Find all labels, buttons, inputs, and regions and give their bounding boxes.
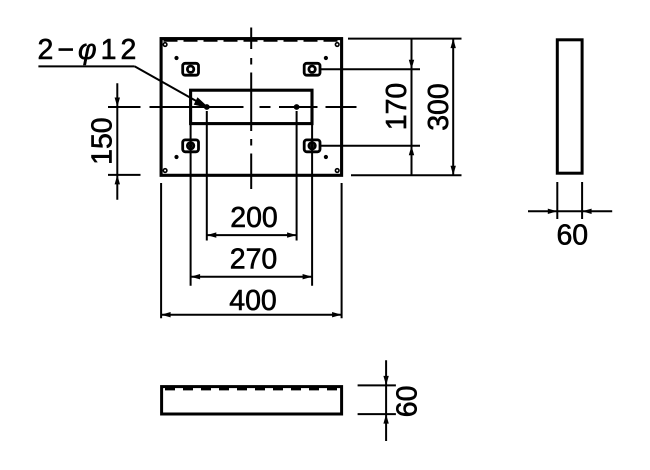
- hole right (phi 12): [294, 104, 300, 110]
- dimension 170 extension lines (right): [321, 69, 420, 146]
- corner circle top-right: [335, 43, 339, 47]
- dimension 300 line: [452, 39, 454, 176]
- dimension 60 (bottom view): [385, 360, 387, 441]
- dimension 300 extension lines (right): [348, 39, 462, 176]
- bottom view outline (400x60): [162, 387, 342, 414]
- extension lines below plate (400): [161, 183, 342, 318]
- svg-text:60: 60: [392, 386, 424, 418]
- svg-text:270: 270: [230, 244, 278, 276]
- corner circle bottom-left: [163, 169, 167, 173]
- svg-text:400: 400: [229, 285, 277, 317]
- corner dot bottom-left: [174, 155, 178, 159]
- mount pad bottom-right: [304, 140, 320, 152]
- hidden line under plate top edge: [164, 40, 340, 42]
- vertical centerline: [250, 28, 252, 190]
- dimension 200 line: [207, 234, 297, 236]
- mount pad top-left: [183, 63, 199, 75]
- dimension 60 (side view): [528, 210, 612, 212]
- svg-text:150: 150: [87, 117, 119, 165]
- dimension 170 line: [411, 39, 413, 176]
- svg-text:170: 170: [381, 83, 413, 131]
- corner dot top-left: [174, 56, 178, 60]
- mount pad bottom-left: [183, 140, 199, 152]
- bottom view extension lines: [358, 385, 396, 414]
- side view outline (right, 60x300): [557, 40, 582, 173]
- slot (center boss 270 wide): [191, 90, 312, 123]
- svg-text:2−φ12: 2−φ12: [38, 34, 141, 66]
- hole left (phi 12): [204, 104, 210, 110]
- horizontal centerline: [108, 106, 357, 108]
- leader label 2-phi12: [38, 34, 141, 66]
- corner dot top-right: [324, 56, 328, 60]
- bottom view hidden line: [165, 388, 339, 390]
- svg-text:200: 200: [230, 202, 278, 234]
- corner circle bottom-right: [335, 169, 339, 173]
- dimension 400 line: [161, 314, 342, 316]
- leader line 2-phi12: [38, 66, 206, 106]
- dimension 150 (left): [108, 83, 141, 200]
- mount pad top-right: [304, 63, 320, 75]
- side view extension lines: [557, 182, 582, 219]
- corner circle top-left: [163, 43, 167, 47]
- dimension 270 line: [191, 276, 313, 278]
- svg-text:300: 300: [423, 83, 455, 131]
- plate outline (front view 400x300): [161, 39, 342, 176]
- corner dot bottom-right: [324, 155, 328, 159]
- extension lines below slot (270): [191, 125, 313, 286]
- extension lines below holes (200): [207, 111, 297, 241]
- svg-text:60: 60: [556, 219, 588, 251]
